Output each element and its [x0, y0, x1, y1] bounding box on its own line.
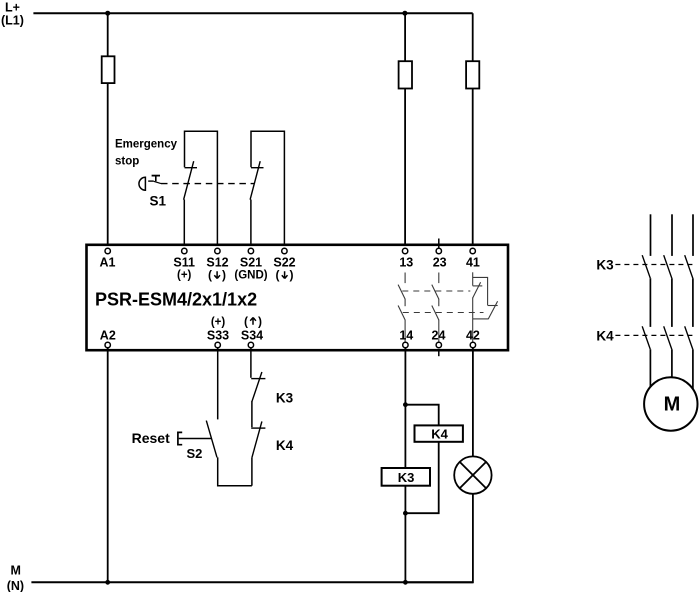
wire K4 to U-bottom — [251, 457, 253, 485]
svg-text:(: ( — [244, 315, 248, 329]
terminal 41 — [470, 248, 475, 253]
fuse F2 — [399, 61, 412, 88]
svg-text:S2: S2 — [187, 446, 203, 461]
terminal S34 — [248, 342, 253, 347]
reset actuator link — [179, 438, 212, 440]
three phase feeder L2 — [671, 214, 673, 256]
terminal S12 — [215, 248, 220, 253]
terminal 13 — [402, 248, 407, 253]
emergency stop contact 2 loop S21-S22 — [251, 131, 284, 248]
relay block PSR-ESM4/2x1/1x2 outline — [87, 245, 509, 350]
three phase feeder L1 — [650, 214, 652, 256]
wire S33 down to S2 contact — [217, 348, 219, 420]
wire S34 down to K3 contact — [250, 348, 252, 378]
node M (N) label — [7, 564, 24, 594]
wire A2 to M rail — [107, 348, 109, 583]
terminal 24 stub below block — [438, 350, 440, 356]
wire L+ to fuse F2 to terminal 13 — [404, 13, 406, 248]
svg-text:(+): (+) — [177, 270, 192, 282]
wire K3 to K4 — [251, 401, 253, 427]
terminal 23 stub above block — [438, 239, 440, 249]
contact K3 blade — [252, 372, 262, 401]
contactor K4 pole 3 blade — [685, 326, 693, 349]
wire K3 to K4 pole 2 — [671, 278, 673, 327]
wire K4 pole 3 to motor — [692, 349, 694, 389]
svg-text:L+: L+ — [5, 1, 20, 15]
svg-text:): ) — [222, 268, 226, 282]
coil K4 box — [415, 425, 463, 441]
terminal S33 — [215, 342, 220, 347]
terminal 14 — [403, 342, 408, 347]
junction dot at 13 feeder on L+ rail — [402, 11, 407, 16]
svg-text:23: 23 — [433, 256, 447, 270]
switch S2 blade — [206, 421, 217, 458]
coil K3 box — [382, 468, 430, 486]
svg-text:K3: K3 — [398, 470, 415, 485]
terminal S22 — [282, 248, 287, 253]
junction dot K3 at M rail — [403, 580, 408, 585]
svg-text:K3: K3 — [596, 257, 614, 272]
fuse F1 — [102, 56, 115, 83]
contact K4 foot — [251, 427, 265, 429]
contact K3 foot — [251, 378, 265, 380]
terminal 23 — [436, 248, 441, 253]
wire 14 down to K3 coil — [404, 348, 406, 468]
junction dot K4 branch top — [403, 402, 408, 407]
svg-text:S33: S33 — [207, 328, 229, 342]
svg-text:13: 13 — [399, 256, 413, 270]
internal coupling dashed row 2 — [403, 312, 484, 314]
contact 2 seat — [251, 167, 264, 169]
svg-text:41: 41 — [466, 256, 480, 270]
S1 mushroom actuator symbol — [139, 176, 161, 191]
contact 1 seat — [185, 167, 198, 169]
svg-text:stop: stop — [115, 156, 139, 168]
internal contact column 23-24 — [432, 273, 439, 343]
svg-text:14: 14 — [399, 328, 413, 342]
Emergency stop label — [115, 138, 178, 167]
svg-text:(GND): (GND) — [234, 270, 267, 282]
svg-text:M: M — [664, 394, 681, 416]
contactor K3 pole 1 blade — [642, 255, 650, 278]
junction dot at A1 feeder on L+ rail — [105, 11, 110, 16]
terminal 24 — [436, 342, 441, 347]
contactor K4 pole 1 blade — [642, 326, 650, 349]
fuse F3 — [466, 61, 479, 88]
K4 contactor dashed link — [615, 334, 693, 336]
internal coupling dashed row 1 — [402, 290, 470, 292]
svg-text:(+): (+) — [211, 316, 226, 328]
terminal S11 — [182, 248, 187, 253]
wire K3 to K4 pole 3 — [692, 278, 694, 327]
svg-text:(: ( — [276, 268, 280, 282]
svg-text:A1: A1 — [100, 255, 116, 269]
wire K4 branch bottom — [405, 442, 438, 513]
svg-text:K4: K4 — [276, 438, 294, 453]
svg-text:M: M — [10, 564, 20, 578]
svg-text:S11: S11 — [173, 255, 195, 269]
lamp H1 — [454, 456, 491, 493]
wire K3 coil to M rail — [404, 486, 406, 583]
wire 42 down to lamp — [472, 348, 474, 457]
svg-text:Reset: Reset — [132, 430, 170, 446]
internal contact column 13-14 — [398, 273, 405, 343]
svg-text:K3: K3 — [276, 391, 294, 406]
svg-text:K4: K4 — [596, 328, 614, 343]
terminal A1 — [105, 248, 110, 253]
terminal S21 — [248, 248, 253, 253]
contact K4 blade — [252, 421, 262, 457]
wire M (N) bottom rail — [31, 581, 473, 583]
wire blade to terminal S11 — [183, 200, 185, 249]
svg-text:): ) — [258, 315, 262, 329]
svg-text:(L1): (L1) — [1, 14, 24, 28]
contactor K3 pole 2 blade — [664, 255, 672, 278]
wire K3 to K4 pole 1 — [649, 278, 651, 327]
svg-text:(N): (N) — [7, 579, 24, 592]
svg-text:K4: K4 — [431, 426, 448, 441]
svg-text:A2: A2 — [100, 328, 116, 342]
svg-text:): ) — [290, 268, 294, 282]
terminal A2 — [105, 342, 110, 347]
wire S2 to U-bottom — [218, 457, 252, 485]
contactor K4 pole 2 blade — [664, 326, 672, 349]
junction dot K4 branch bottom — [403, 511, 408, 516]
wire K4 pole 1 to motor — [649, 349, 651, 387]
wire L+ top rail — [33, 12, 472, 14]
three phase feeder L3 — [692, 214, 694, 256]
svg-text:24: 24 — [432, 328, 446, 342]
contact 2 blade — [250, 161, 260, 200]
svg-text:42: 42 — [466, 328, 480, 342]
wire K4 pole 2 to motor — [671, 349, 673, 377]
wire lamp to M rail corner — [405, 494, 473, 583]
wire L+ to fuse F1 to A1 — [107, 13, 109, 248]
terminal 42 — [470, 342, 475, 347]
wire L+ corner to fuse F3 to terminal 41 — [472, 13, 474, 248]
motor M circle — [644, 377, 697, 430]
svg-text:S21: S21 — [240, 255, 262, 269]
svg-text:PSR-ESM4/2x1/1x2: PSR-ESM4/2x1/1x2 — [95, 289, 257, 309]
svg-text:(: ( — [208, 268, 212, 282]
contactor K3 pole 3 blade — [685, 255, 693, 278]
contact 1 blade — [184, 161, 194, 200]
junction dot A2 at M rail — [105, 580, 110, 585]
svg-text:Emergency: Emergency — [115, 138, 178, 150]
wire blade to terminal S21 — [250, 200, 252, 249]
reset button bracket — [178, 432, 182, 444]
S1 actuator dashed link — [161, 183, 254, 185]
svg-text:S1: S1 — [150, 194, 167, 209]
internal NC contact column 41-42 — [473, 272, 498, 342]
node L+ (L1) label — [1, 1, 24, 28]
emergency stop contact 1 loop S11-S12 — [185, 131, 218, 248]
K3 contactor dashed link — [615, 264, 693, 266]
wire K4 branch top — [405, 405, 438, 426]
svg-text:S34: S34 — [241, 328, 263, 342]
